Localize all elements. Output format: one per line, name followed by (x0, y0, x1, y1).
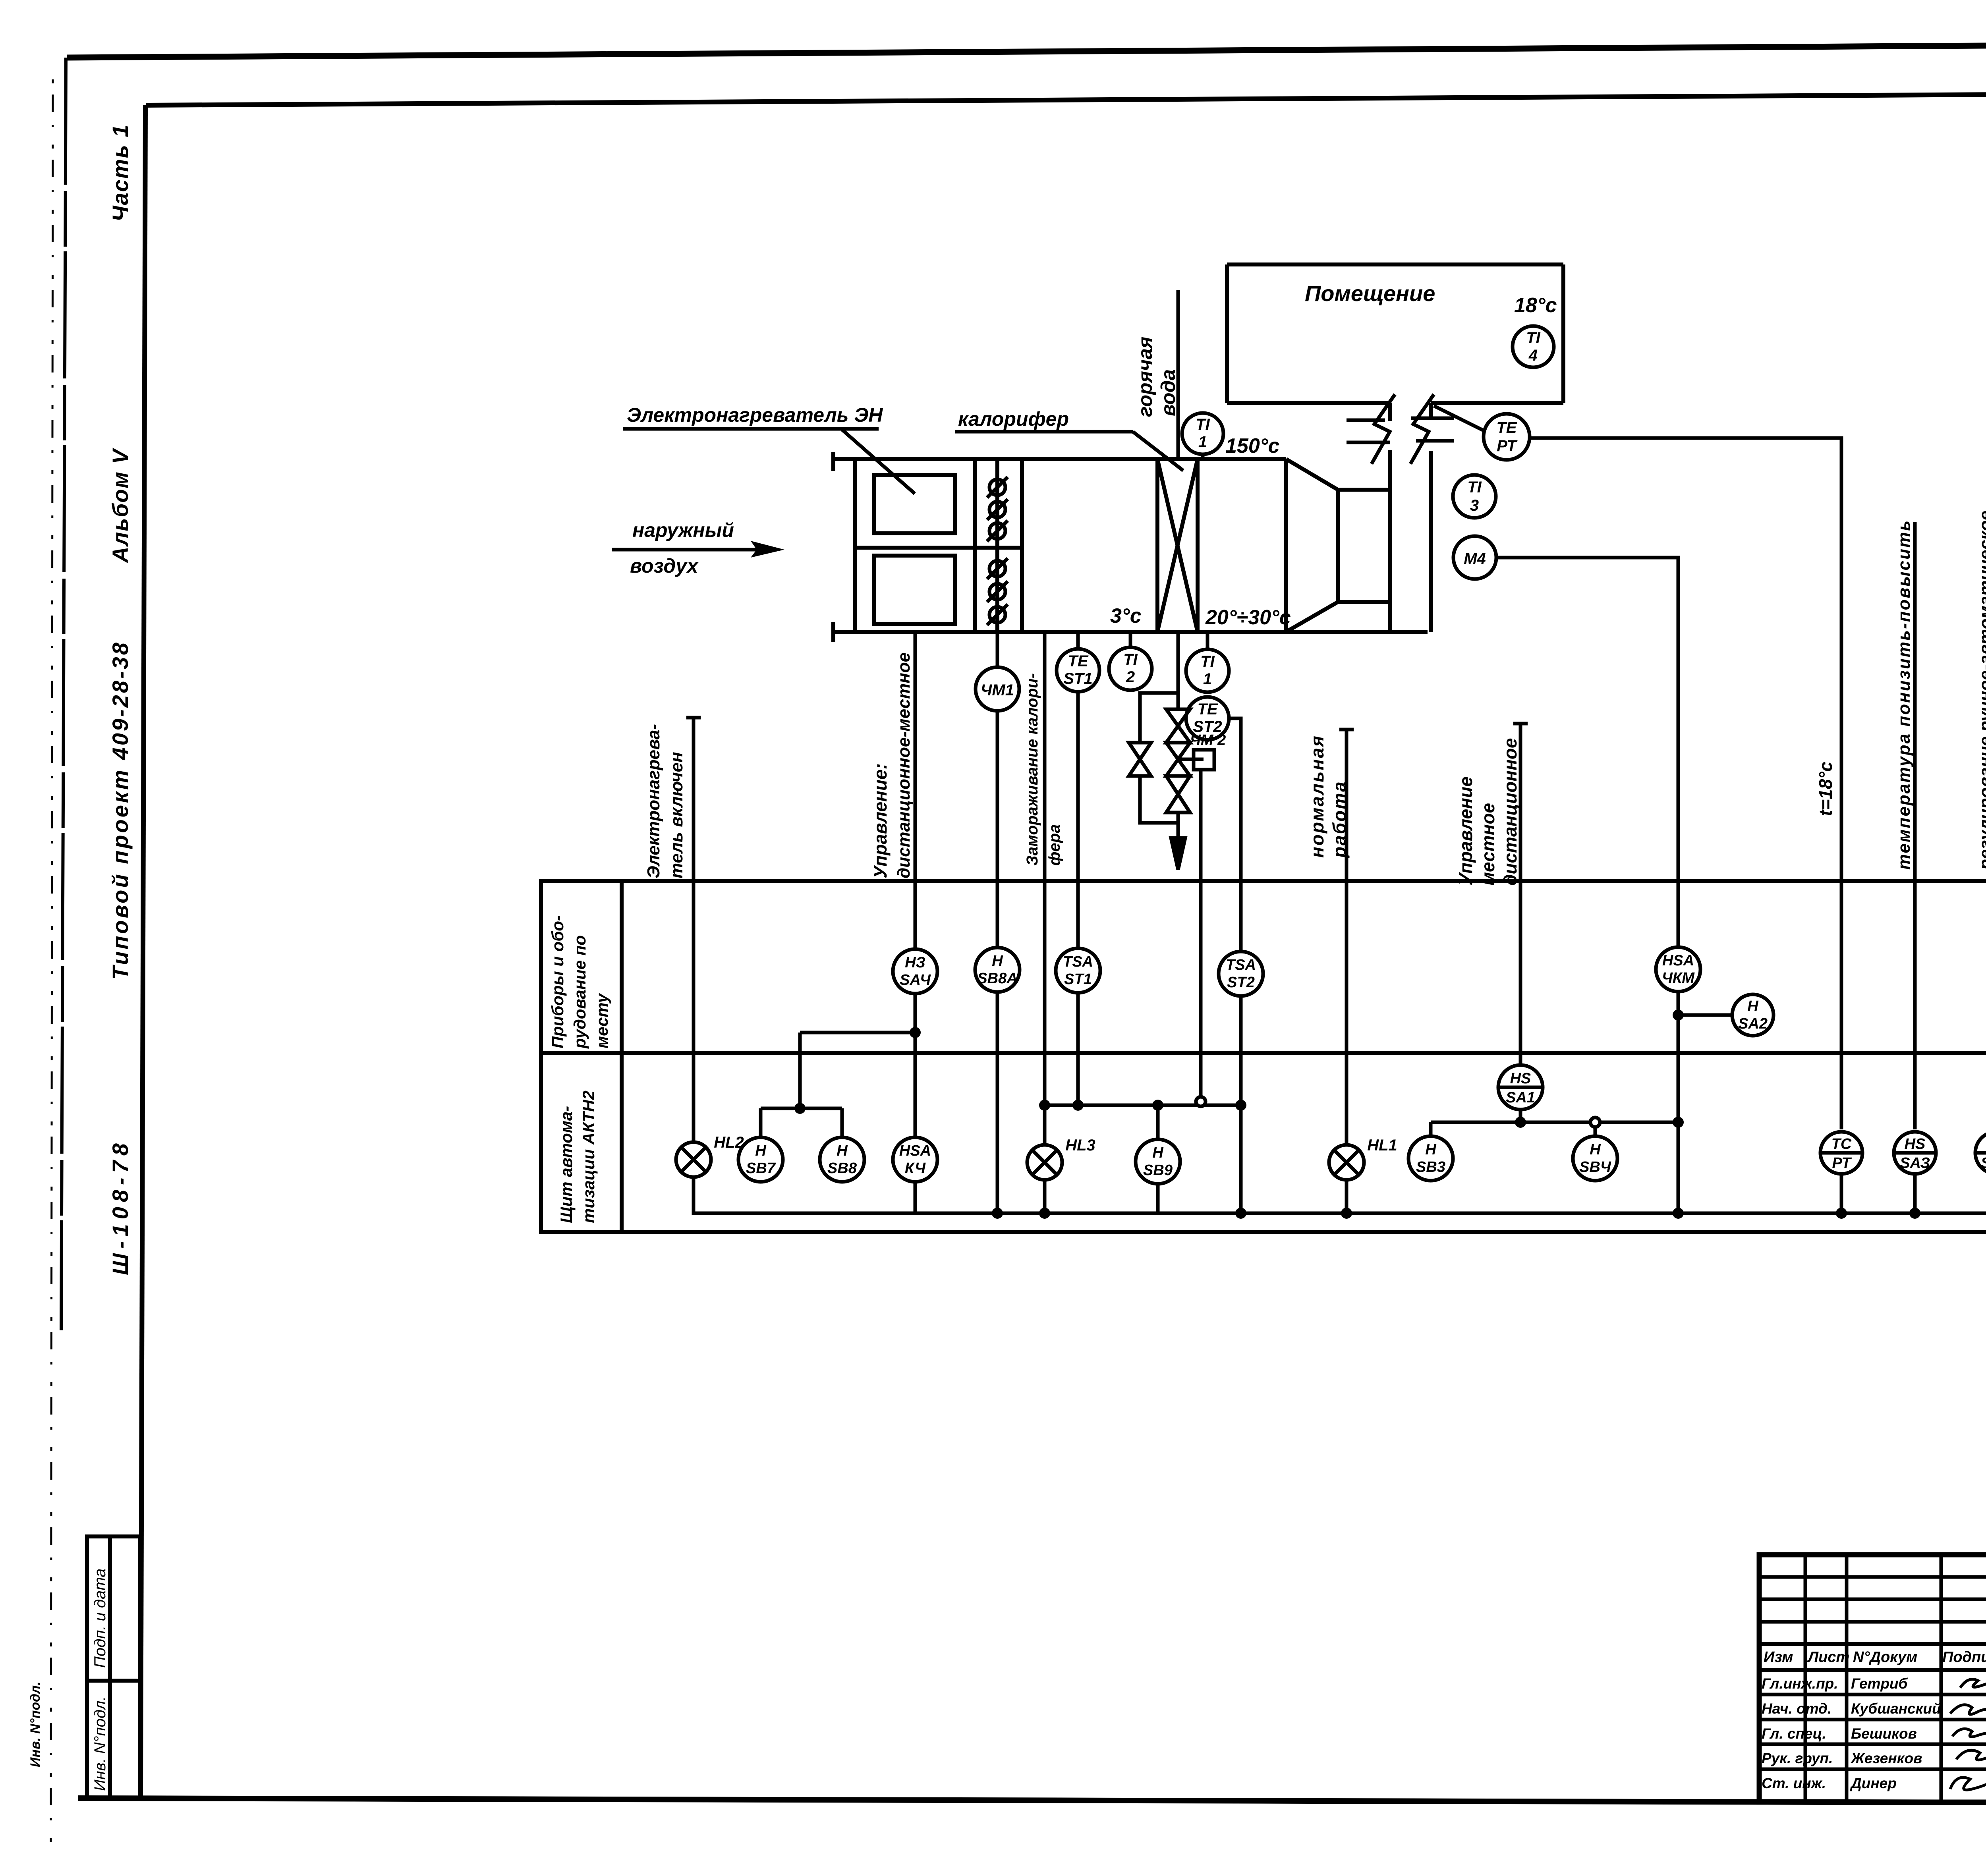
svg-text:НS: НS (1510, 1070, 1531, 1087)
svg-text:SАЗ: SАЗ (1900, 1155, 1930, 1172)
wire temp raise-lower (1913, 522, 1917, 1129)
instrument H SA2 (1732, 994, 1773, 1036)
svg-text:SВ9: SВ9 (1143, 1162, 1173, 1179)
panel row label Щит (557, 1090, 598, 1223)
svg-text:Нач. отд.: Нач. отд. (1762, 1700, 1831, 1717)
svg-text:ТЕ: ТЕ (1496, 419, 1517, 436)
wire fork drop right (840, 1108, 844, 1137)
svg-text:SВЧ: SВЧ (1579, 1159, 1611, 1175)
air arrow head (751, 541, 784, 558)
room box bottom right part (1431, 401, 1563, 405)
pipe below valve 3 (1177, 813, 1180, 844)
bypass top segment (1140, 693, 1178, 743)
svg-text:Управление: Управление (1455, 776, 1476, 886)
instrument TE ST1 (1057, 649, 1099, 692)
sig row lines (1759, 1693, 1986, 1697)
svg-text:воздух: воздух (630, 555, 699, 577)
open circle SB4 (1590, 1117, 1600, 1127)
wire branch to SA2 (1678, 1013, 1732, 1017)
bus drop HL3 (1043, 1180, 1047, 1213)
svg-text:Ст. инж.: Ст. инж. (1762, 1775, 1826, 1791)
heater section middle divider (855, 546, 1022, 550)
svg-text:SАS: SАS (1981, 1155, 1986, 1172)
instrument M4 (1453, 536, 1496, 579)
svg-text:Ш-108-78: Ш-108-78 (108, 1139, 133, 1275)
stamp box divider horizontal (87, 1679, 140, 1683)
svg-text:НS: НS (1905, 1136, 1926, 1152)
sig col 2 (1845, 1555, 1849, 1802)
svg-text:ТI: ТI (1196, 416, 1210, 433)
svg-text:SВ3: SВ3 (1416, 1159, 1445, 1175)
bus drop SB9 (1156, 1184, 1160, 1213)
sig header row line (1759, 1642, 1986, 1646)
main chamber right wall (1284, 459, 1288, 632)
duct left wall lower (1388, 450, 1392, 632)
svg-text:Лист: Лист (1807, 1649, 1849, 1666)
instrument ЧМ1 (976, 667, 1019, 711)
svg-text:ТSА: ТSА (1226, 957, 1256, 973)
junction dot ST2 wireA (1235, 1100, 1246, 1111)
svg-text:18°с: 18°с (1514, 294, 1557, 317)
svg-text:РТ: РТ (1832, 1155, 1852, 1172)
svg-text:Замораживание калори-: Замораживание калори- (1024, 673, 1041, 866)
tick heater-on top (686, 716, 701, 720)
outer left border (rough) (61, 58, 66, 1330)
heat exchanger right wall (1196, 459, 1200, 632)
junction dot SA2 branch (1673, 1009, 1684, 1021)
outer top border (67, 42, 1986, 58)
svg-text:1: 1 (1198, 433, 1207, 451)
lamp HL2 (676, 1142, 711, 1177)
fan box top (1338, 488, 1390, 492)
wire SB3 drop (1429, 1122, 1433, 1136)
bus drop HL1 (1345, 1180, 1348, 1213)
actuator stem (1178, 758, 1204, 761)
sig header bottom line (1759, 1668, 1986, 1672)
panel row label Приборы (548, 915, 611, 1049)
svg-text:Н: Н (1152, 1145, 1164, 1161)
instrument TSA ST2 (1219, 952, 1263, 996)
junction dot SA1 wireB (1515, 1117, 1526, 1128)
hot water pipe upper (1177, 290, 1180, 459)
instrument H SB7 (738, 1137, 783, 1182)
break zigzag left (1372, 394, 1395, 464)
svg-text:Н: Н (992, 953, 1003, 969)
svg-text:Электронагрева-: Электронагрева- (644, 724, 663, 878)
wire A horizontal (1045, 1104, 1241, 1107)
sig empty rows (1759, 1575, 1986, 1579)
break stub line lower right (1416, 439, 1454, 443)
ahu top edge (833, 457, 1286, 461)
stem TE ST1 to ahu (1076, 632, 1080, 649)
panel rectangle (541, 881, 1986, 1232)
svg-text:Рук. груп.: Рук. груп. (1762, 1750, 1833, 1766)
svg-text:Типовой проект 409-28-38: Типовой проект 409-28-38 (108, 641, 133, 980)
svg-text:М4: М4 (1464, 550, 1486, 567)
BOTTOM LEFT STAMP BOXES (87, 1536, 140, 1798)
svg-text:Динер: Динер (1850, 1775, 1897, 1791)
junction dot fork (794, 1103, 806, 1114)
wire control below SA4 (914, 994, 917, 1137)
instrument TI1 lower (1186, 649, 1229, 692)
svg-text:Гл.инж.пр.: Гл.инж.пр. (1762, 1675, 1838, 1692)
svg-text:t=18°с: t=18°с (1815, 762, 1836, 816)
svg-text:Альбом V: Альбом V (108, 448, 133, 564)
svg-text:SТ1: SТ1 (1064, 971, 1092, 988)
svg-text:тель включен: тель включен (667, 752, 686, 878)
heat exchanger left wall (1155, 459, 1159, 632)
svg-text:Н: Н (1747, 998, 1759, 1015)
wire ЧКМ to SA2 junction (1677, 992, 1680, 1213)
wire normal work (1345, 730, 1348, 1144)
instrument H SB9 (1136, 1139, 1180, 1184)
svg-text:РТ: РТ (1497, 437, 1518, 455)
wire freeze signal (1043, 632, 1047, 1144)
junction dot SA4 branch (910, 1027, 921, 1038)
wire M4 elbow (1497, 558, 1678, 947)
instrument H SB8 (820, 1137, 864, 1182)
signature 1 (1960, 1677, 1986, 1688)
svg-text:Кубшанский: Кубшанский (1851, 1700, 1941, 1717)
svg-text:НSА: НSА (1662, 952, 1694, 969)
svg-text:ЧКМ: ЧКМ (1662, 970, 1695, 986)
signatures squiggles (1950, 1677, 1986, 1790)
svg-text:регулирование ручное-автоматич: регулирование ручное-автоматическое (1976, 511, 1986, 870)
svg-text:Подпись: Подпись (1942, 1649, 1986, 1666)
instrument TI2 (1109, 647, 1152, 690)
stem TI2 to ahu (1129, 632, 1132, 647)
actuator box ЧМ2 (1194, 750, 1214, 770)
valve V2 control valve (1166, 743, 1190, 776)
signature 5 (1950, 1777, 1986, 1790)
svg-text:4: 4 (1528, 347, 1538, 364)
svg-text:SВ8А: SВ8А (977, 970, 1017, 987)
electric heater bottom square (874, 556, 955, 624)
lead line to TE PT (1434, 406, 1484, 431)
svg-text:КЧ: КЧ (905, 1160, 926, 1177)
svg-text:дистанционное-местное: дистанционное-местное (894, 652, 914, 878)
ahu inlet flange bottom tick (831, 622, 835, 642)
damper centre line (995, 459, 999, 632)
svg-text:ТI: ТI (1526, 329, 1540, 347)
svg-text:Щит автома-: Щит автома- (557, 1106, 576, 1223)
fan box bottom (1338, 600, 1390, 604)
instrument H SB8A (975, 948, 1020, 992)
svg-text:ТС: ТС (1831, 1136, 1852, 1152)
svg-text:НL3: НL3 (1065, 1137, 1095, 1154)
room box bottom left part (1227, 401, 1391, 405)
stamp box divider vertical (108, 1536, 112, 1798)
instrument TI1 top stem (1201, 454, 1205, 460)
wire SB4 drop (1594, 1127, 1597, 1136)
wire TE ST2 elbow (1228, 718, 1241, 952)
inner top border (146, 91, 1986, 105)
bus drop НSА КЧ (914, 1182, 917, 1213)
svg-text:SТ1: SТ1 (1063, 670, 1092, 687)
wire damper ЧМ1 upper (996, 632, 999, 667)
instrument TE ST2 (1186, 697, 1229, 740)
wire SA1 to wireB (1519, 1110, 1522, 1122)
svg-text:Гл. спец.: Гл. спец. (1762, 1725, 1826, 1742)
svg-text:SАЧ: SАЧ (900, 972, 931, 988)
room box left (1225, 264, 1229, 403)
underline Электронагреватель (623, 427, 879, 431)
svg-text:150°с: 150°с (1225, 434, 1280, 457)
ahu left wall (853, 459, 857, 632)
svg-text:ТI: ТI (1467, 479, 1482, 496)
room box right (1561, 264, 1565, 403)
instrument HS SA4 (893, 949, 937, 994)
open circle actuator end (1196, 1097, 1206, 1106)
svg-text:горячая: горячая (1134, 337, 1156, 417)
instrument НSА КЧ (893, 1137, 937, 1182)
break stub line upper right (1411, 417, 1454, 420)
svg-text:Н: Н (1425, 1141, 1437, 1158)
junction dot HL3 wireA (1039, 1100, 1050, 1111)
junction dot M4 wireB (1673, 1117, 1684, 1128)
bus drop TC PT (1840, 1174, 1843, 1213)
instrument H SB4 (1573, 1136, 1617, 1181)
panel label column divider (620, 881, 624, 1232)
stem TI1 lower to ahu (1206, 632, 1209, 649)
svg-text:Электронагреватель ЭН: Электронагреватель ЭН (627, 404, 883, 426)
wire actuator to wireA (1199, 770, 1203, 1097)
sig col 1 (1804, 1555, 1807, 1802)
electric heater top square (874, 475, 955, 533)
stamp box rect (87, 1536, 140, 1798)
wire B horizontal (1431, 1121, 1678, 1124)
bypass valve (1129, 743, 1151, 776)
bottom border (78, 1798, 1986, 1804)
svg-text:ТI: ТI (1200, 653, 1215, 670)
heat exchanger X diagonal 1 (1157, 459, 1198, 632)
break stub line lower left (1347, 441, 1390, 444)
svg-text:SВ7: SВ7 (746, 1160, 776, 1177)
wire SB9 drop (1156, 1105, 1160, 1139)
break stub line upper left (1347, 419, 1385, 422)
underline калорифер (955, 430, 1133, 434)
svg-text:работа: работа (1329, 780, 1350, 859)
svg-text:Изм: Изм (1764, 1649, 1793, 1666)
instrument HS SA1 (1498, 1065, 1543, 1110)
signature 4 (1956, 1750, 1986, 1762)
signature 3 (1952, 1729, 1986, 1737)
instrument TI4 (1513, 326, 1554, 367)
title block outer rect (1759, 1555, 1986, 1802)
wire TE PT elbow (1530, 438, 1841, 1129)
duct right wall lower (1429, 451, 1433, 632)
junction dot ST1 wireA (1072, 1100, 1084, 1111)
room box top (1227, 262, 1563, 266)
svg-text:ЧМ1: ЧМ1 (981, 681, 1014, 699)
instrument TE PT (1484, 414, 1530, 460)
svg-text:Управление:: Управление: (870, 763, 891, 878)
heater section right wall (973, 459, 977, 632)
drain arrow (1171, 838, 1185, 870)
damper blade circles (987, 477, 1008, 625)
wire ST1 circle to wireA (1076, 993, 1080, 1105)
svg-text:НSА: НSА (899, 1143, 931, 1159)
wire fork bar (761, 1107, 842, 1110)
panel bottom bus (694, 1173, 1986, 1213)
svg-text:ТI: ТI (1123, 651, 1138, 668)
svg-text:Н: Н (1590, 1141, 1601, 1158)
svg-text:Н: Н (837, 1143, 848, 1159)
svg-text:местное: местное (1478, 803, 1498, 886)
break zigzag right (1410, 394, 1434, 464)
lead line to heater (842, 430, 915, 494)
svg-text:20°÷30°с: 20°÷30°с (1205, 606, 1291, 629)
junction dot SB9 wireA (1152, 1100, 1163, 1111)
svg-text:Часть 1: Часть 1 (108, 124, 133, 222)
svg-text:1: 1 (1203, 670, 1212, 688)
svg-text:вода: вода (1157, 369, 1179, 416)
bus drop HS SA3 (1913, 1174, 1917, 1213)
svg-text:наружный: наружный (632, 519, 734, 541)
svg-text:рудование по: рудование по (570, 935, 589, 1049)
svg-text:3: 3 (1470, 497, 1479, 514)
svg-text:2: 2 (1126, 668, 1135, 686)
bypass bottom segment (1140, 776, 1178, 823)
svg-text:ТЕ: ТЕ (1068, 652, 1088, 670)
svg-text:Приборы и обо-: Приборы и обо- (548, 915, 567, 1048)
contraction bottom slope (1286, 602, 1338, 632)
svg-text:SА2: SА2 (1738, 1015, 1768, 1032)
lamp HL1 (1329, 1145, 1364, 1180)
hot water pipe below ahu (1177, 632, 1180, 709)
valve V3 on main (1166, 776, 1190, 813)
svg-text:ТSА: ТSА (1063, 953, 1093, 970)
duct right wall upper (1429, 403, 1433, 418)
svg-text:Инв. N°подл.: Инв. N°подл. (28, 1681, 43, 1767)
svg-text:НL1: НL1 (1367, 1137, 1397, 1154)
svg-text:фера: фера (1046, 824, 1063, 866)
svg-text:дистанционное: дистанционное (1500, 738, 1520, 886)
wire ST2 circle down (1239, 996, 1243, 1213)
wire branch down (798, 1033, 802, 1108)
wire fork drop left (759, 1108, 763, 1137)
wire heater-on signal (692, 718, 695, 1142)
bus junction dots (992, 1208, 1920, 1219)
svg-text:N°Докум: N°Докум (1853, 1649, 1917, 1666)
svg-text:Бешиков: Бешиков (1851, 1725, 1917, 1742)
signature 2 (1950, 1705, 1986, 1716)
svg-text:Гетриб: Гетриб (1851, 1675, 1908, 1692)
instrument НSА ЧКМ (1656, 947, 1700, 992)
svg-text:месту: месту (593, 992, 611, 1048)
damper section right wall (1020, 459, 1024, 632)
panel row divider (541, 1051, 1986, 1055)
wire ЧМ1 to SB8A (996, 711, 999, 948)
svg-text:SТ2: SТ2 (1193, 718, 1222, 735)
inner left border (141, 105, 145, 1799)
wire control local-dist (1519, 724, 1522, 1065)
sig col 3 (1940, 1555, 1943, 1802)
instrument TC PT (1820, 1132, 1862, 1174)
heat exchanger X diagonal 2 (1157, 459, 1198, 632)
svg-text:Жезенков: Жезенков (1850, 1750, 1922, 1766)
svg-text:нормальная: нормальная (1307, 735, 1327, 858)
paper edge dashed left (51, 79, 53, 1843)
instrument HS SA3 (1894, 1132, 1936, 1174)
ahu inlet flange top tick (831, 452, 835, 471)
wire TE ST1 down (1076, 692, 1080, 948)
LEFT MARGIN ROTATED TEXT (28, 124, 133, 1767)
svg-text:Помещение: Помещение (1305, 281, 1435, 306)
svg-text:тизации АКТН2: тизации АКТН2 (579, 1090, 598, 1223)
instrument HS SA5 (1975, 1132, 1986, 1174)
fan box left wall (1336, 490, 1340, 602)
tick control local-dist top (1513, 722, 1528, 726)
lamp HL3 (1027, 1145, 1062, 1180)
air arrow line (612, 548, 767, 552)
instrument TSA ST1 (1056, 948, 1100, 993)
svg-text:3°с: 3°с (1110, 604, 1142, 627)
svg-text:Инв. N°подл.: Инв. N°подл. (91, 1696, 109, 1791)
svg-text:НЗ: НЗ (905, 954, 925, 971)
instrument H SB3 (1408, 1136, 1453, 1181)
instrument TI3 (1453, 475, 1496, 518)
svg-text:SВ8: SВ8 (827, 1160, 857, 1177)
svg-text:калорифер: калорифер (958, 408, 1069, 430)
instrument TI1 top (1182, 413, 1223, 454)
svg-text:ТЕ: ТЕ (1197, 701, 1218, 718)
svg-text:Н: Н (755, 1143, 767, 1159)
svg-text:SА1: SА1 (1506, 1089, 1535, 1106)
valve V1 on main (1166, 709, 1190, 743)
wire branch horizontal at 2600 (800, 1031, 915, 1035)
svg-text:SТ2: SТ2 (1227, 974, 1255, 991)
duct left wall upper (1388, 403, 1392, 421)
svg-text:Подп. и дата: Подп. и дата (91, 1569, 109, 1668)
tick normal work top (1339, 728, 1354, 731)
lead line to heat exchanger (1133, 432, 1183, 471)
contraction top slope (1286, 459, 1338, 490)
wire SB8A to bus (996, 992, 999, 1213)
wire control local-remote (914, 632, 917, 949)
svg-text:температура понизить-повысить: температура понизить-повысить (1894, 519, 1914, 870)
ahu bottom edge (833, 630, 1428, 634)
